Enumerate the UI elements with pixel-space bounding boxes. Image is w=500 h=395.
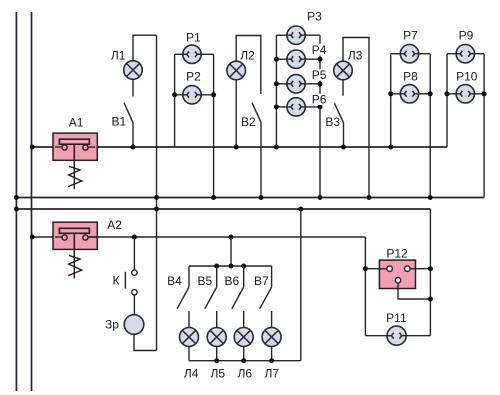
svg-text:Р5: Р5	[312, 68, 327, 82]
button К lower contact	[132, 290, 137, 295]
wire P1-P2 right vertical	[213, 54, 215, 197]
breaker А2	[53, 222, 97, 256]
wire rail drop for В4	[188, 266, 190, 287]
node rail at B6	[241, 264, 246, 269]
node rail at B5	[214, 264, 219, 269]
node P5 right junction	[318, 81, 323, 86]
wire P3 left lead	[276, 34, 290, 36]
wire P12 bottom pin	[398, 283, 430, 299]
svg-text:Р8: Р8	[403, 70, 418, 84]
node P12 left lead junction	[363, 266, 368, 271]
wire P7 right lead	[416, 53, 431, 55]
node feed to button K	[132, 235, 137, 240]
wire P5 left lead	[276, 83, 290, 85]
node P12 right at vertical	[428, 266, 433, 271]
svg-text:В5: В5	[198, 274, 213, 288]
connector Р7	[400, 45, 418, 63]
connector Р4	[287, 50, 305, 68]
wire lamp Л5 to collector	[216, 347, 218, 361]
connector Р5	[287, 75, 305, 93]
wire P2 left lead	[175, 94, 187, 96]
label Р6	[311, 93, 327, 107]
svg-text:Р10: Р10	[456, 70, 478, 84]
wire P9-P10 right vertical	[483, 54, 485, 198]
wire P1 left lead	[175, 53, 187, 55]
lamp Л5	[207, 328, 226, 347]
wire P3-P6 right vertical	[319, 35, 321, 197]
wire lamp L1 bottom to switch B1	[132, 79, 134, 96]
wire P4 right lead	[302, 58, 320, 60]
wire vertical from L1 bracket down to bell loop	[156, 35, 158, 350]
wire left bus bar 1 (vertical)	[15, 12, 17, 391]
svg-text:Л1: Л1	[111, 49, 126, 63]
wire P3 right lead	[302, 34, 320, 36]
svg-text:Л6: Л6	[238, 366, 253, 380]
svg-text:Л4: Л4	[184, 366, 199, 380]
wire P6 left lead	[276, 106, 290, 108]
svg-text:Р1: Р1	[186, 31, 201, 45]
wire bus3 down to P11 right	[429, 209, 431, 336]
svg-text:Р9: Р9	[459, 29, 474, 43]
wire bus2 horizontal	[16, 197, 484, 199]
node L2 at bus1	[234, 145, 239, 150]
wire P11 left lead	[365, 335, 387, 337]
thermal element of A2 (zigzag)	[68, 251, 82, 278]
bell Зр	[124, 315, 144, 335]
wire P8 left lead	[391, 93, 404, 95]
svg-text:Р11: Р11	[386, 311, 407, 325]
connector Р9	[456, 45, 474, 63]
wire P1 right lead	[198, 53, 213, 55]
wire A2 feed horizontal to P12	[88, 236, 366, 238]
node P4 right junction	[318, 57, 323, 62]
node P2 left junction	[172, 92, 177, 97]
lamp Л2	[227, 61, 246, 80]
svg-text:В4: В4	[167, 274, 182, 288]
node P6 right junction	[318, 104, 323, 109]
wire switch rail horizontal	[189, 265, 272, 267]
node P3-P6 right at bus2	[318, 195, 323, 200]
node P6 left junction	[274, 104, 279, 109]
wire P8 right lead	[416, 93, 431, 95]
wire P6 right lead	[302, 106, 320, 108]
wire P7-P8 left vertical	[390, 54, 392, 147]
svg-text:А1: А1	[69, 115, 84, 129]
lamp Л1	[124, 61, 143, 80]
node B2 at bus2	[259, 195, 264, 200]
node P7P8 at bus2	[428, 195, 433, 200]
node feed to switch group B4-B7	[229, 235, 234, 240]
wire collector up to bus3	[300, 209, 302, 361]
node bus1 at bus bar 2	[30, 145, 35, 150]
wire P12 right lead	[410, 268, 430, 270]
node bus2 at bus bar 1	[14, 195, 19, 200]
connector Р1	[183, 45, 201, 63]
node P10 right junction	[482, 91, 487, 96]
connector Р10	[456, 85, 474, 103]
svg-text:Р4: Р4	[312, 43, 327, 57]
button К upper contact	[132, 270, 137, 275]
svg-text:В2: В2	[241, 115, 256, 129]
switch В7 blade	[260, 287, 272, 309]
svg-text:Р3: Р3	[307, 9, 322, 23]
wire rail drop for В7	[271, 266, 273, 287]
node P4 left junction	[274, 57, 279, 62]
node A2 feed at bus bar 2	[30, 235, 35, 240]
label Р5	[311, 68, 327, 82]
wire P1-P2 left vertical	[174, 54, 176, 147]
switch В3 blade	[335, 103, 344, 123]
connector Р11	[387, 326, 406, 345]
node collector at L7	[269, 358, 274, 363]
svg-text:В1: В1	[111, 115, 126, 129]
node collector at bus3	[298, 207, 303, 212]
wire switch B1 to bus1	[132, 123, 134, 148]
wire lamp collector horizontal	[189, 360, 301, 362]
wire P9 left lead	[447, 53, 459, 55]
wire lamp L3 top bracket	[343, 38, 369, 198]
wire lamp Л7 to collector	[271, 347, 273, 361]
socket Р12	[379, 260, 415, 288]
wire bus3 horizontal	[16, 208, 430, 210]
svg-text:Л7: Л7	[265, 366, 280, 380]
wire switch B3 to bus1	[343, 123, 345, 147]
wire lamp L2 top bracket	[236, 36, 261, 95]
switch В2 blade	[252, 103, 261, 123]
lamp Л4	[180, 328, 199, 347]
switch В5 blade	[205, 287, 217, 309]
svg-text:Зр: Зр	[105, 318, 119, 332]
wire P12 left lead	[365, 268, 386, 270]
wire P7 left lead	[391, 53, 404, 55]
svg-text:Р7: Р7	[403, 29, 418, 43]
wire left bus bar 2 (vertical)	[31, 12, 33, 391]
wire P4 left lead	[276, 58, 290, 60]
wire feed down to switch rail	[230, 237, 232, 266]
node P12 bottom at vertical	[428, 297, 433, 302]
connector Р6	[287, 98, 305, 116]
switch В1 blade	[124, 103, 133, 123]
wire P7-P8 right vertical	[429, 54, 431, 198]
wire A2 feed from bus bar 2	[32, 236, 63, 238]
lamp Л7	[262, 328, 281, 347]
node bus3 at bus bar 1	[14, 207, 19, 212]
svg-text:Р6: Р6	[312, 93, 327, 107]
wire lamp Л6 to collector	[243, 347, 245, 361]
svg-text:В3: В3	[325, 115, 340, 129]
wire button K to bell	[133, 295, 135, 315]
wire bell bottom loop	[134, 334, 157, 350]
label Р4	[311, 43, 327, 57]
connector Р3	[287, 26, 305, 44]
node P3-P6 left at bus1	[274, 145, 279, 150]
svg-text:А2: А2	[107, 218, 122, 232]
svg-text:Р2: Р2	[186, 70, 201, 84]
node P1P2 at bus2	[211, 195, 216, 200]
node bracket wire at bus3	[154, 207, 159, 212]
svg-text:В6: В6	[224, 274, 239, 288]
wire feed down right side to P11 left	[364, 237, 366, 336]
svg-text:Л3: Л3	[348, 48, 363, 62]
switch В4 blade	[177, 287, 189, 309]
wire В7 to lamp Л7	[271, 311, 273, 328]
wire switch B2 to bus2	[260, 122, 262, 197]
node B3 at bus1	[341, 145, 346, 150]
wire P3-P6 left vertical	[275, 35, 277, 147]
wire bus1 from bus bar 2 to breaker A1	[32, 146, 63, 148]
wire lamp L1 top bracket	[133, 35, 157, 61]
node bracket wire at bus2	[154, 195, 159, 200]
wire lamp Л4 to collector	[188, 347, 190, 361]
wire lamp L3 bottom to switch B3	[342, 80, 344, 96]
wire P11 right lead	[406, 335, 430, 337]
wire rail drop for В6	[243, 266, 245, 287]
node P10 left junction	[445, 91, 450, 96]
wire feed down to button K	[133, 237, 135, 270]
wire В4 to lamp Л4	[188, 311, 190, 328]
thermal element of A1 (zigzag)	[68, 162, 82, 189]
node rail at feed	[229, 264, 234, 269]
wire P10 right lead	[471, 93, 484, 95]
breaker А1	[53, 133, 97, 167]
svg-text:К: К	[113, 274, 120, 288]
wire lamp L2 bottom to bus1	[235, 80, 237, 147]
node B1 at bus1	[131, 145, 136, 150]
wire В5 to lamp Л5	[216, 311, 218, 328]
node P8 right junction	[428, 91, 433, 96]
lamp Л3	[334, 61, 353, 80]
connector Р8	[400, 85, 418, 103]
node P8 left junction	[388, 91, 393, 96]
svg-text:В7: В7	[254, 274, 269, 288]
wire P5 right lead	[302, 83, 320, 85]
lamp Л6	[234, 328, 253, 347]
switch В6 blade	[232, 287, 244, 309]
node collector at L6	[241, 358, 246, 363]
node P5 left junction	[274, 81, 279, 86]
svg-text:Л5: Л5	[211, 366, 226, 380]
node P7P8 at bus1	[388, 145, 393, 150]
node P2 right junction	[211, 92, 216, 97]
wire В6 to lamp Л6	[243, 311, 245, 328]
wire rail drop for В5	[216, 266, 218, 287]
wire P9-P10 left vertical	[446, 54, 448, 147]
svg-text:Л2: Л2	[240, 49, 255, 63]
node L3 bracket at bus2	[367, 195, 372, 200]
wire P2 right lead	[198, 94, 213, 96]
connector Р2	[183, 86, 201, 104]
button К actuator bar	[124, 272, 126, 289]
wire bus1 main horizontal (A1 to right end)	[88, 146, 447, 148]
wire P10 left lead	[447, 93, 459, 95]
wire P9 right lead	[471, 53, 484, 55]
node collector at L5	[214, 358, 219, 363]
svg-text:Р12: Р12	[386, 246, 408, 260]
